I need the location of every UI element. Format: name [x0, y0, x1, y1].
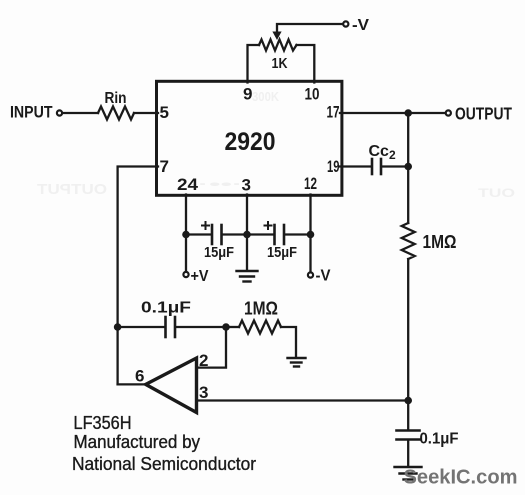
node -V terminal bottom [308, 272, 313, 277]
wire pin6 to feedback [118, 383, 146, 385]
svg-text:1MΩ: 1MΩ [244, 298, 278, 319]
wire output node down [407, 113, 409, 223]
svg-text:-V: -V [316, 268, 331, 285]
svg-text:Manufactured by: Manufactured by [74, 432, 201, 452]
capacitor C1 15uF [212, 225, 222, 244]
ground bottom right [395, 467, 422, 480]
wire C4 to ground [407, 440, 409, 466]
wire 1M mid to ground [281, 327, 296, 357]
svg-text:12: 12 [304, 174, 317, 193]
junction dot feedback node [114, 323, 122, 331]
junction dot pin24 node [182, 231, 190, 239]
svg-text:National Semiconductor: National Semiconductor [72, 454, 256, 474]
op-amp U1 IC 2920 body [157, 81, 342, 195]
svg-text:2: 2 [199, 351, 208, 370]
capacitor Cc2 [372, 159, 381, 174]
junction dot pin3 node [243, 231, 251, 239]
wire pin12 down [309, 195, 311, 272]
svg-text:0.1μF: 0.1μF [420, 431, 459, 448]
C2 plus sign [265, 222, 272, 229]
wire pin9 up to pot [248, 45, 260, 83]
junction dot Cc2 node [404, 163, 412, 171]
capacitor C 0.1uF right [397, 431, 420, 440]
wire feedback node to C3 [118, 326, 165, 328]
resistor R 1M right [402, 223, 415, 259]
svg-text:7: 7 [160, 157, 169, 176]
node INPUT terminal [57, 110, 62, 115]
wire input to Rin [63, 112, 99, 114]
node OUTPUT terminal [446, 110, 451, 115]
svg-text:15μF: 15μF [267, 244, 297, 261]
wire pin24 down [185, 195, 187, 272]
svg-text:3: 3 [199, 383, 208, 402]
svg-text:3: 3 [242, 176, 251, 195]
potentiometer R 1K [259, 40, 297, 51]
op-amp U2 LF356H triangle [146, 358, 197, 413]
svg-text:1K: 1K [272, 55, 288, 72]
ground center [237, 271, 258, 282]
resistor R 1M mid [239, 321, 281, 334]
svg-text:Rin: Rin [105, 90, 127, 107]
capacitor C3 0.1uF [166, 317, 176, 337]
ground mid [288, 358, 306, 367]
wire pin17 to OUTPUT [340, 112, 445, 114]
junction dot output node [404, 109, 412, 117]
wire pin3 down [246, 195, 248, 271]
wire C3 to node A [176, 326, 226, 328]
node -V terminal top [343, 21, 348, 26]
svg-text:9: 9 [243, 85, 252, 104]
svg-text:1MΩ: 1MΩ [423, 231, 457, 252]
svg-text:+V: +V [191, 268, 209, 285]
junction dot pin12 node [307, 231, 315, 239]
svg-text:5: 5 [160, 103, 169, 122]
wire Cc2 to node [382, 165, 408, 167]
wire C1 to pin3 node [223, 233, 275, 235]
svg-text:SeekIC.com: SeekIC.com [404, 466, 518, 489]
wire pin24 node to C1 [186, 233, 211, 235]
svg-text:OUTPUT: OUTPUT [455, 104, 512, 124]
svg-text:15μF: 15μF [204, 244, 234, 261]
wire Rin to pin5 [134, 112, 158, 114]
svg-text:OUTPUT: OUTPUT [37, 181, 107, 198]
wire pot wiper to -V [277, 24, 343, 33]
svg-text:-V: -V [352, 17, 369, 34]
junction dot node A [222, 323, 230, 331]
pot wiper arrowhead [272, 32, 281, 41]
svg-text:OUT: OUT [477, 186, 515, 200]
wire pin7 left [118, 167, 158, 385]
resistor Rin [98, 107, 134, 120]
wire pin19 to Cc2 [340, 165, 371, 167]
wire node A to R 1M mid [226, 326, 239, 328]
svg-text:24: 24 [177, 175, 199, 194]
svg-text:0.1μF: 0.1μF [141, 300, 191, 317]
wire C2 to pin12 node [285, 233, 311, 235]
svg-text:2920: 2920 [225, 128, 276, 156]
junction dot node B [404, 397, 412, 405]
svg-text:300K: 300K [252, 89, 280, 104]
svg-text:10: 10 [305, 85, 320, 104]
node +V terminal [183, 272, 188, 277]
svg-text:6: 6 [135, 367, 144, 386]
svg-text:LF356H: LF356H [74, 413, 132, 433]
wire pin2 to node A [197, 327, 227, 368]
svg-text:INPUT: INPUT [10, 103, 53, 122]
svg-text:19: 19 [327, 157, 340, 176]
C1 plus sign [202, 222, 209, 229]
wire 1M to node B [407, 259, 409, 401]
wire pot to pin10 [297, 45, 315, 83]
wire node B down to C4 [407, 401, 409, 430]
svg-text:17: 17 [327, 103, 340, 122]
wire pin3 opamp to node B [197, 399, 409, 401]
capacitor C2 15uF [275, 225, 285, 244]
